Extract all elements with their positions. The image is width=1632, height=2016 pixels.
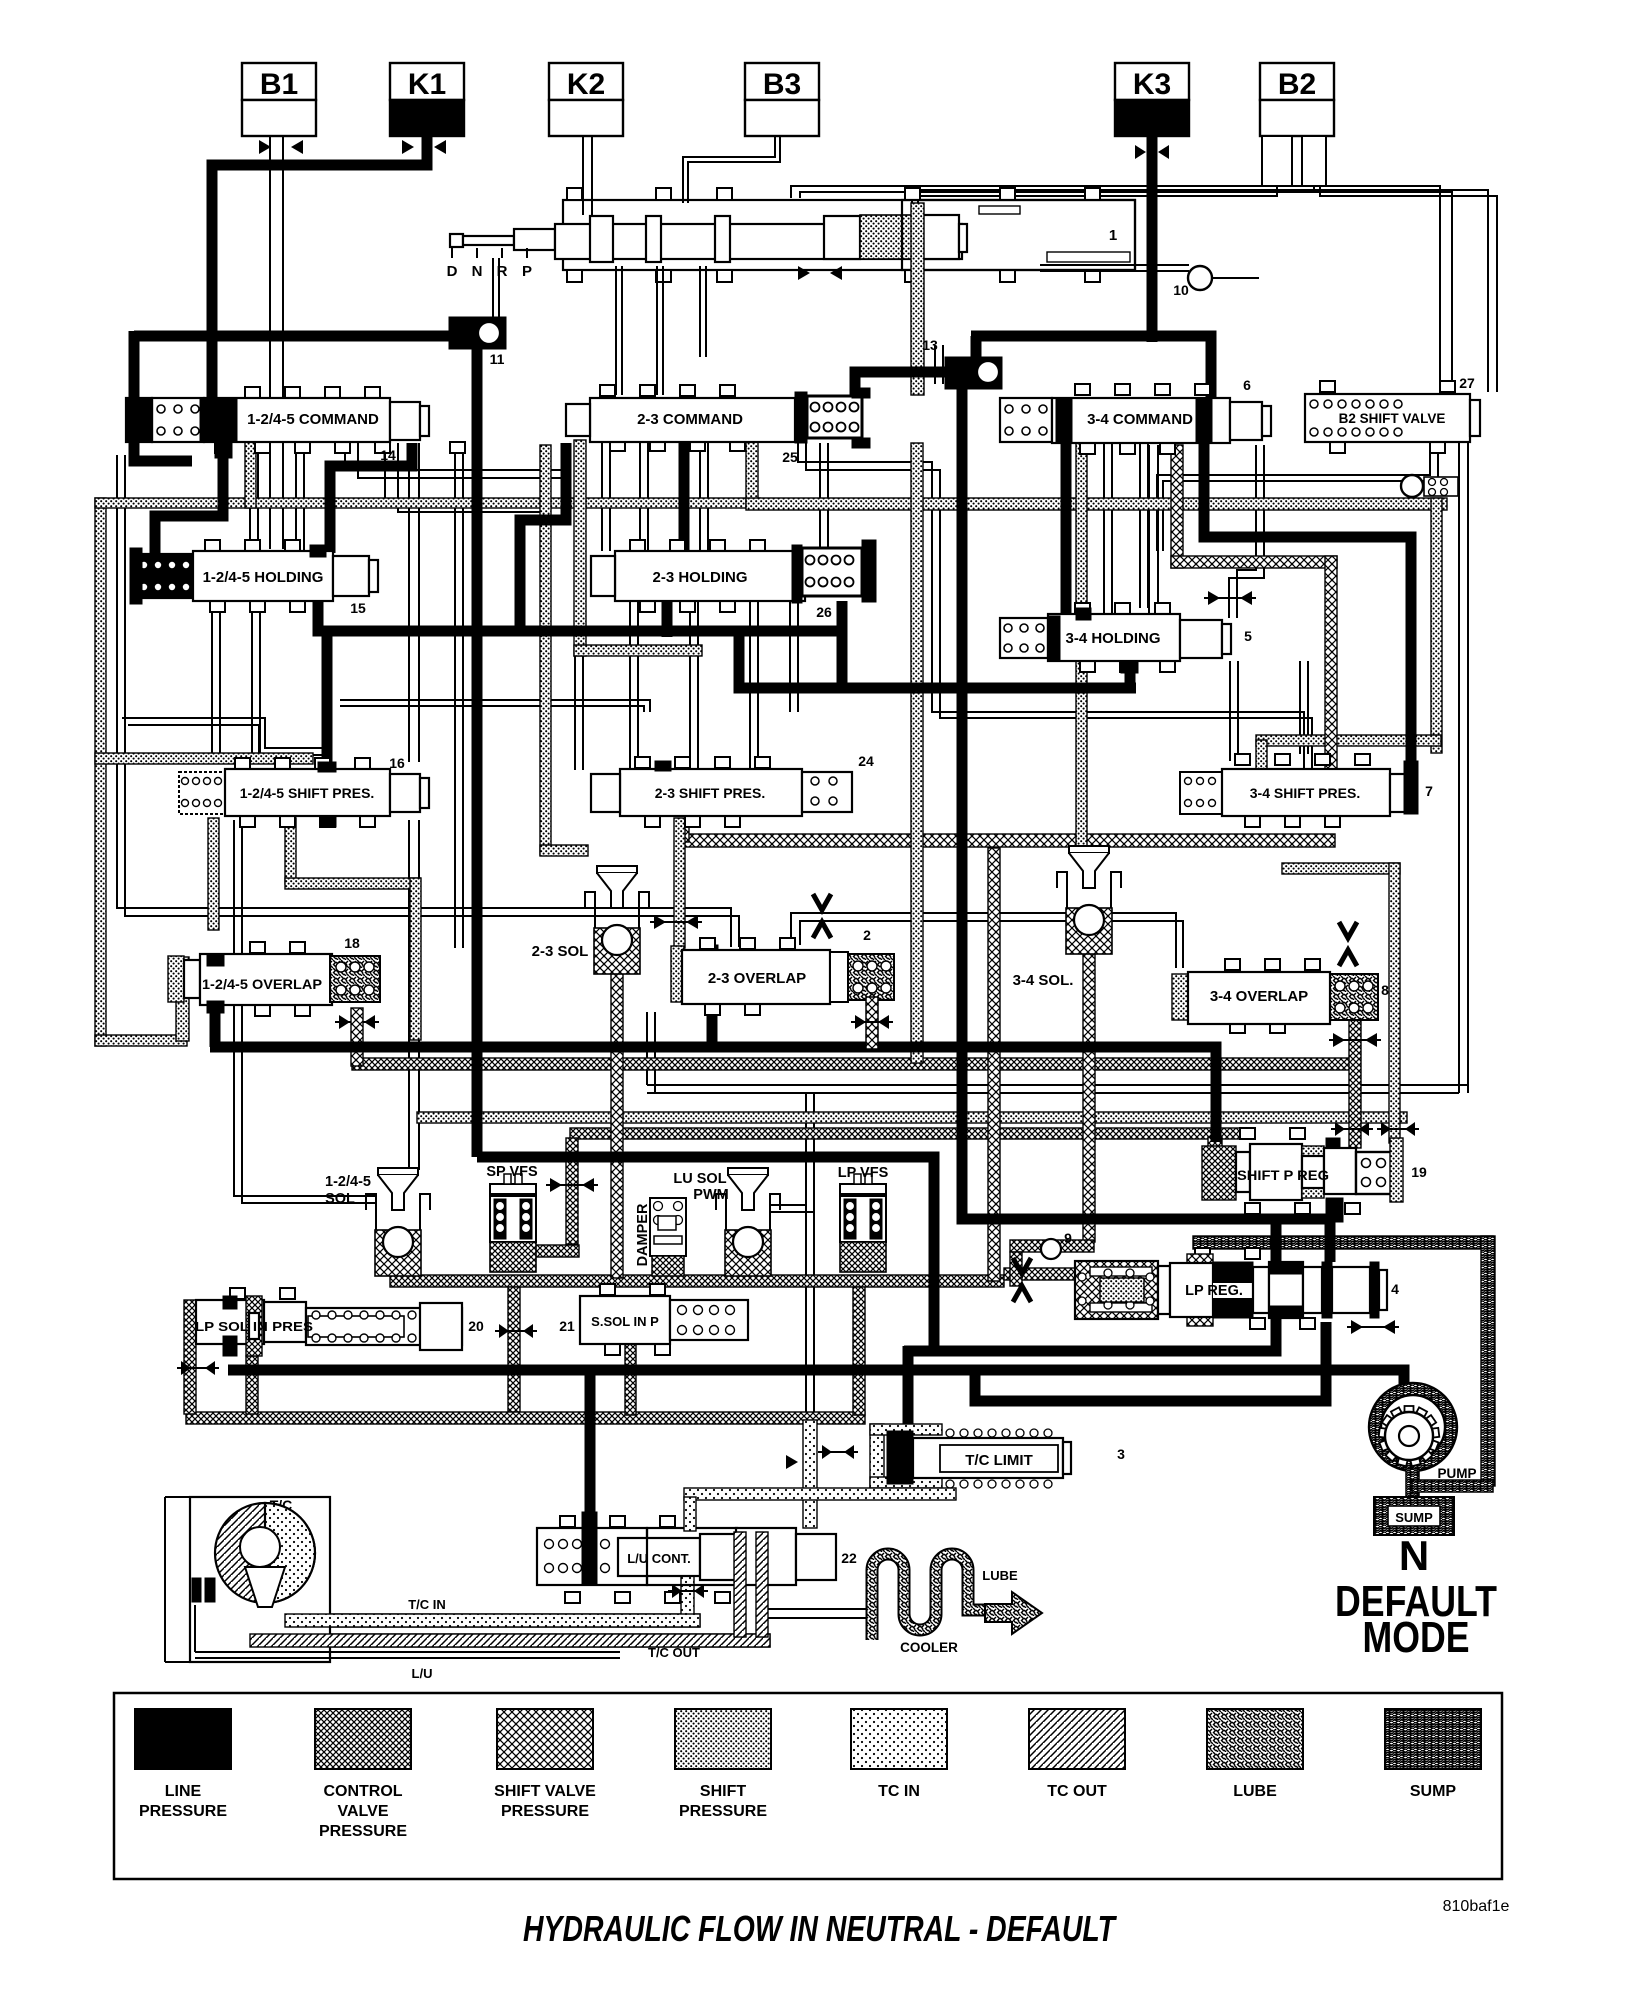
check arrows above shift p reg [1335,1122,1345,1136]
svg-text:SUMP: SUMP [1395,1510,1433,1525]
tc in drop to L/U cont [803,1420,817,1528]
svg-text:B3: B3 [763,68,801,101]
svg-text:PRESSURE: PRESSURE [319,1823,407,1840]
svg-text:HYDRAULIC FLOW IN NEUTRAL - DE: HYDRAULIC FLOW IN NEUTRAL - DEFAULT [523,1908,1117,1949]
svg-text:LINE: LINE [165,1783,202,1800]
valve 3-4 holding [1075,603,1090,614]
3-4 sol stem [1083,950,1095,1242]
control valve pressure second horizontal [570,1128,1246,1139]
svg-text:1-2/4-5 HOLDING: 1-2/4-5 HOLDING [203,569,324,586]
svg-text:1-2/4-5 COMMAND: 1-2/4-5 COMMAND [247,411,379,428]
valve 1-2/4-5 shift pres [235,758,250,769]
solenoid LP VFS [840,1184,886,1194]
T/C out channel [250,1634,770,1647]
svg-text:B2 SHIFT VALVE: B2 SHIFT VALVE [1339,411,1446,426]
svg-text:3: 3 [1117,1446,1125,1462]
svg-text:S.SOL IN P: S.SOL IN P [591,1314,659,1329]
line pressure to T/C limit [477,1157,934,1352]
arrow near L/U drop [786,1455,798,1469]
check valve arrows under K1 [402,140,414,154]
valve L/U cont [560,1516,575,1527]
wires 2-3 holding down [629,601,631,769]
check arrows below LP reg [1351,1320,1363,1334]
svg-text:27: 27 [1459,375,1475,391]
shift pressure channel manual valve to 2-3 command [911,203,924,395]
svg-text:PRESSURE: PRESSURE [501,1803,589,1820]
line pressure 1-2/4-5 overlap drop [210,1008,221,1047]
svg-text:LP REG.: LP REG. [1185,1283,1243,1299]
svg-text:24: 24 [858,753,874,769]
clutch box B2 [1260,63,1334,100]
check arrows 2-3 overlap coil [855,1015,866,1029]
clutch box B1 [242,63,316,100]
svg-text:21: 21 [559,1318,575,1334]
svg-text:2-3 HOLDING: 2-3 HOLDING [652,569,747,586]
check arrows below 1-2/4-5 overlap [339,1015,350,1029]
svg-text:14: 14 [380,447,396,463]
check arrows below 3-4 overlap [1333,1033,1345,1047]
svg-text:2-3 SHIFT PRES.: 2-3 SHIFT PRES. [655,785,765,801]
line pressure pipe left branch to block 11 [134,331,452,342]
wires 3-4 holding down [1229,661,1231,761]
svg-text:18: 18 [344,935,360,951]
svg-text:D: D [447,263,458,280]
svg-text:PWM: PWM [693,1187,728,1203]
legend swatch TC IN [851,1709,947,1769]
svg-text:SP VFS: SP VFS [486,1164,538,1180]
wire B1 stems [269,136,271,398]
line pressure long bottom run [228,1370,1404,1396]
wire T/C left [165,1496,190,1498]
wires right margin long pair [1458,442,1460,1093]
pump [1369,1383,1457,1471]
svg-text:13: 13 [922,337,938,353]
valve 3-4 overlap [1225,959,1240,970]
solenoid LU SOL PWM [728,1168,768,1175]
svg-text:1-2/4-5 SHIFT PRES.: 1-2/4-5 SHIFT PRES. [240,785,375,801]
svg-text:20: 20 [468,1318,484,1334]
item 10 ball [1040,270,1189,272]
shift valve pressure band under 2-3 shift pres [677,834,1335,847]
shift pressure channel x911 [911,443,923,1063]
wires 3-4 command to 3-4 holding right [1237,445,1256,618]
shift valve channel to 2-3 overlap [674,818,685,948]
shift pressure channel 1-2/4-5 shift pres to overlap [208,818,219,930]
shift pressure dotted long channel [417,1112,1407,1123]
svg-text:K2: K2 [567,68,605,101]
svg-text:DAMPER: DAMPER [635,1203,651,1266]
legend swatch SUMP [1385,1709,1481,1769]
svg-text:6: 6 [1243,377,1251,393]
svg-text:T/C OUT: T/C OUT [648,1645,700,1660]
line pressure LP reg top stub [1271,1222,1282,1262]
svg-text:L/U CONT.: L/U CONT. [627,1551,691,1566]
solenoid feed drop to bottom manifold [508,1287,520,1412]
legend box [114,1693,1502,1879]
svg-text:3-4 OVERLAP: 3-4 OVERLAP [1210,988,1308,1005]
valve 3-4 command [1075,384,1090,395]
svg-text:8: 8 [1381,982,1389,998]
line pressure block13 to 2-3 command [855,372,945,400]
solenoid 1-2/4-5 sol [378,1168,418,1175]
svg-text:SOL: SOL [325,1191,355,1207]
vertical arrows item 9 [1013,1258,1031,1274]
svg-text:1-2/4-5: 1-2/4-5 [325,1174,371,1190]
pump suction loop [1193,1236,1493,1249]
line pressure 3-4 command right to 3-4 shift pres [1204,443,1411,765]
valve 2-3 shift pres [635,757,650,768]
svg-text:N: N [472,263,483,280]
svg-text:9: 9 [1064,1230,1072,1246]
check valve arrows under B1 [259,140,271,154]
valve 1-2/4-5 holding [205,540,220,551]
svg-text:MODE: MODE [1363,1613,1470,1662]
wires 1-2/4-5 holding to shift pres [211,612,213,758]
line pressure pipe K1 to left drop [212,137,427,400]
check arrows 20 [499,1324,509,1338]
svg-text:2: 2 [863,927,871,943]
check arrows left of LP sol valve [181,1361,191,1375]
legend swatch SHIFT [675,1709,771,1769]
2-3 overlap coil drain [866,997,878,1049]
svg-text:10: 10 [1173,282,1189,298]
svg-text:PRESSURE: PRESSURE [139,1803,227,1820]
svg-text:3-4 HOLDING: 3-4 HOLDING [1065,630,1160,647]
svg-text:5: 5 [1244,628,1252,644]
svg-text:B2: B2 [1278,68,1316,101]
svg-text:K3: K3 [1133,68,1171,101]
svg-text:TC OUT: TC OUT [1047,1783,1107,1800]
wires channel y1085 [646,1012,648,1085]
clutch box K1 [390,63,464,100]
line pressure shift pres drop [322,634,333,770]
line pressure pipe lower mid [904,1318,1276,1351]
svg-text:11: 11 [490,351,505,367]
line pressure main right vertical [962,389,1330,1262]
2-3 sol stem [611,968,623,1278]
junction block 13 [945,357,1002,389]
control valve pressure horizontal main [352,1058,1352,1070]
svg-text:7: 7 [1425,783,1433,799]
clutch box K2 [549,63,623,100]
solenoid SP VFS [490,1184,536,1194]
junction block 11 [449,317,506,349]
svg-text:TC IN: TC IN [878,1783,920,1800]
line pressure to shift p reg [210,1047,1216,1142]
svg-text:LP VFS: LP VFS [838,1165,889,1181]
svg-text:SHIFT P REG: SHIFT P REG [1237,1168,1329,1183]
check arrows T/C limit left [822,1445,832,1459]
svg-text:L/U: L/U [412,1666,433,1681]
shift pressure channel from 2-3 command right [746,440,758,508]
manual valve assembly item 1 [450,234,463,247]
wires under solenoid row [770,1204,806,1206]
solenoid 3-4 sol [1069,846,1109,853]
valve 1-2/4-5 overlap [250,942,265,953]
line pressure branch to LP reg lower [975,1322,1326,1401]
wires misc verticals [408,820,410,1170]
svg-text:P: P [522,263,532,280]
shift valve pressure channel vertical left [95,498,106,1046]
line pressure main left vertical [472,349,483,1157]
valve shift p reg [1240,1128,1255,1139]
check valve arrows under K3 [1135,145,1146,159]
svg-text:LP SOL IN PRES: LP SOL IN PRES [195,1320,313,1334]
line pressure 1-2/4-5 command to holding links [155,445,223,554]
svg-text:SHIFT VALVE: SHIFT VALVE [494,1783,596,1800]
wire manual valve to block 11 [492,258,494,318]
lube cooler coil [872,1554,985,1640]
clutch box K3 [1115,63,1189,100]
wires upper mid extra [819,443,821,551]
check arrows 2-3 overlap [654,915,666,929]
legend swatch TC OUT [1029,1709,1125,1769]
svg-text:26: 26 [816,604,832,620]
shift pressure channel 3-4 command to 3-4 sol [1076,443,1087,846]
valve LP sol in pres [230,1288,245,1299]
svg-text:CONTROL: CONTROL [323,1783,402,1800]
pump suction from sump [1406,1469,1419,1503]
svg-text:LUBE: LUBE [1233,1783,1277,1800]
svg-text:15: 15 [350,600,366,616]
line pressure to L/U control [585,1370,596,1545]
svg-text:810baf1e: 810baf1e [1443,1898,1510,1915]
valve 2-3 holding [630,540,645,551]
legend swatch CONTROL [315,1709,411,1769]
valve LP regulator [1195,1248,1210,1259]
svg-text:T/C IN: T/C IN [408,1597,446,1612]
svg-text:B1: B1 [260,68,298,101]
check arrows under manual valve [798,266,810,280]
wires long left drain [117,455,731,947]
manual valve DNRP positions [451,248,453,258]
svg-text:SHIFT: SHIFT [700,1783,746,1800]
T/C in channel [285,1614,700,1627]
svg-text:LUBE: LUBE [982,1568,1018,1583]
lube arrow [985,1592,1042,1634]
wire manual valve to block 13 [699,266,701,357]
svg-text:25: 25 [782,449,798,465]
line pressure 3-4 command to holding [1061,441,1072,618]
line pressure 2-3 command left drop [520,443,566,631]
wires 3-4 command-holding [1139,443,1141,608]
svg-text:2-3 COMMAND: 2-3 COMMAND [637,411,743,428]
svg-text:16: 16 [389,755,405,771]
solenoid 2-3 sol [597,866,637,873]
line pressure K3 drop [1147,137,1158,342]
wires top right to B2 shift valve [791,186,1440,392]
clutch box B3 [745,63,819,100]
tc in upper channel [684,1488,956,1500]
svg-text:2-3 OVERLAP: 2-3 OVERLAP [708,970,806,987]
check arrows L/U cont [672,1584,682,1598]
torque converter T/C [190,1497,330,1662]
svg-text:T/C LIMIT: T/C LIMIT [965,1452,1033,1469]
svg-text:4: 4 [1391,1281,1399,1297]
legend swatch LUBE [1207,1709,1303,1769]
wire K2 stems [582,136,584,215]
svg-text:LU SOL: LU SOL [673,1171,726,1187]
legend swatch LINE [135,1709,231,1769]
check arrows near SP VFS [550,1178,562,1192]
SP VFS riser channel [566,1138,578,1244]
svg-text:VALVE: VALVE [338,1803,389,1820]
svg-text:22: 22 [841,1550,857,1566]
line pressure holding manifold left [318,596,845,631]
vertical check arrows 3-4 overlap [1339,922,1357,938]
svg-text:19: 19 [1411,1164,1427,1180]
svg-text:PRESSURE: PRESSURE [679,1803,767,1820]
valve 3-4 shift pres [1235,754,1250,765]
L/U line [195,1651,620,1653]
lube feed lines [768,1608,872,1610]
svg-text:K1: K1 [408,68,446,101]
wires command to holding left [249,443,251,551]
svg-text:2-3 SOL: 2-3 SOL [532,943,589,960]
wire B3 stems [683,136,775,203]
svg-text:PUMP: PUMP [1437,1466,1476,1481]
vertical check arrows 2-3 overlap right [813,894,831,910]
valve 2-3 overlap [700,938,715,949]
valve 1-2/4-5 command [245,387,260,398]
svg-text:SUMP: SUMP [1410,1783,1457,1800]
item 9 check ball [1010,1240,1094,1252]
tc out risers [734,1532,746,1637]
svg-text:1: 1 [1109,227,1117,244]
legend swatch SHIFT VALVE [497,1709,593,1769]
svg-text:COOLER: COOLER [900,1640,958,1655]
svg-text:3-4 SHIFT PRES.: 3-4 SHIFT PRES. [1250,785,1360,801]
svg-text:1-2/4-5 OVERLAP: 1-2/4-5 OVERLAP [202,977,322,992]
wires feed 3-4 shift pres [798,443,1304,769]
check arrows above 3-4 holding [1208,591,1220,605]
valve B2 shift valve [1320,381,1335,392]
item oil check [1401,475,1423,497]
wire manual valve to 2-3 command [615,266,617,395]
line pressure 2-3 overlap drop [707,972,718,1047]
damper [650,1198,686,1256]
wire B2 stems [912,186,1277,204]
wires 2-3 command-holding [639,443,641,551]
svg-text:N: N [1399,1532,1429,1579]
line pressure upper right manifold [971,336,1211,398]
svg-text:3-4 COMMAND: 3-4 COMMAND [1087,411,1193,428]
wires b2 shift valve bottom [1157,442,1430,551]
valve T/C limit [870,1424,884,1488]
svg-text:3-4 SOL.: 3-4 SOL. [1013,972,1074,989]
sump [1374,1497,1454,1535]
valve 2-3 command [600,385,615,396]
solenoid supply bus [390,1275,1004,1287]
